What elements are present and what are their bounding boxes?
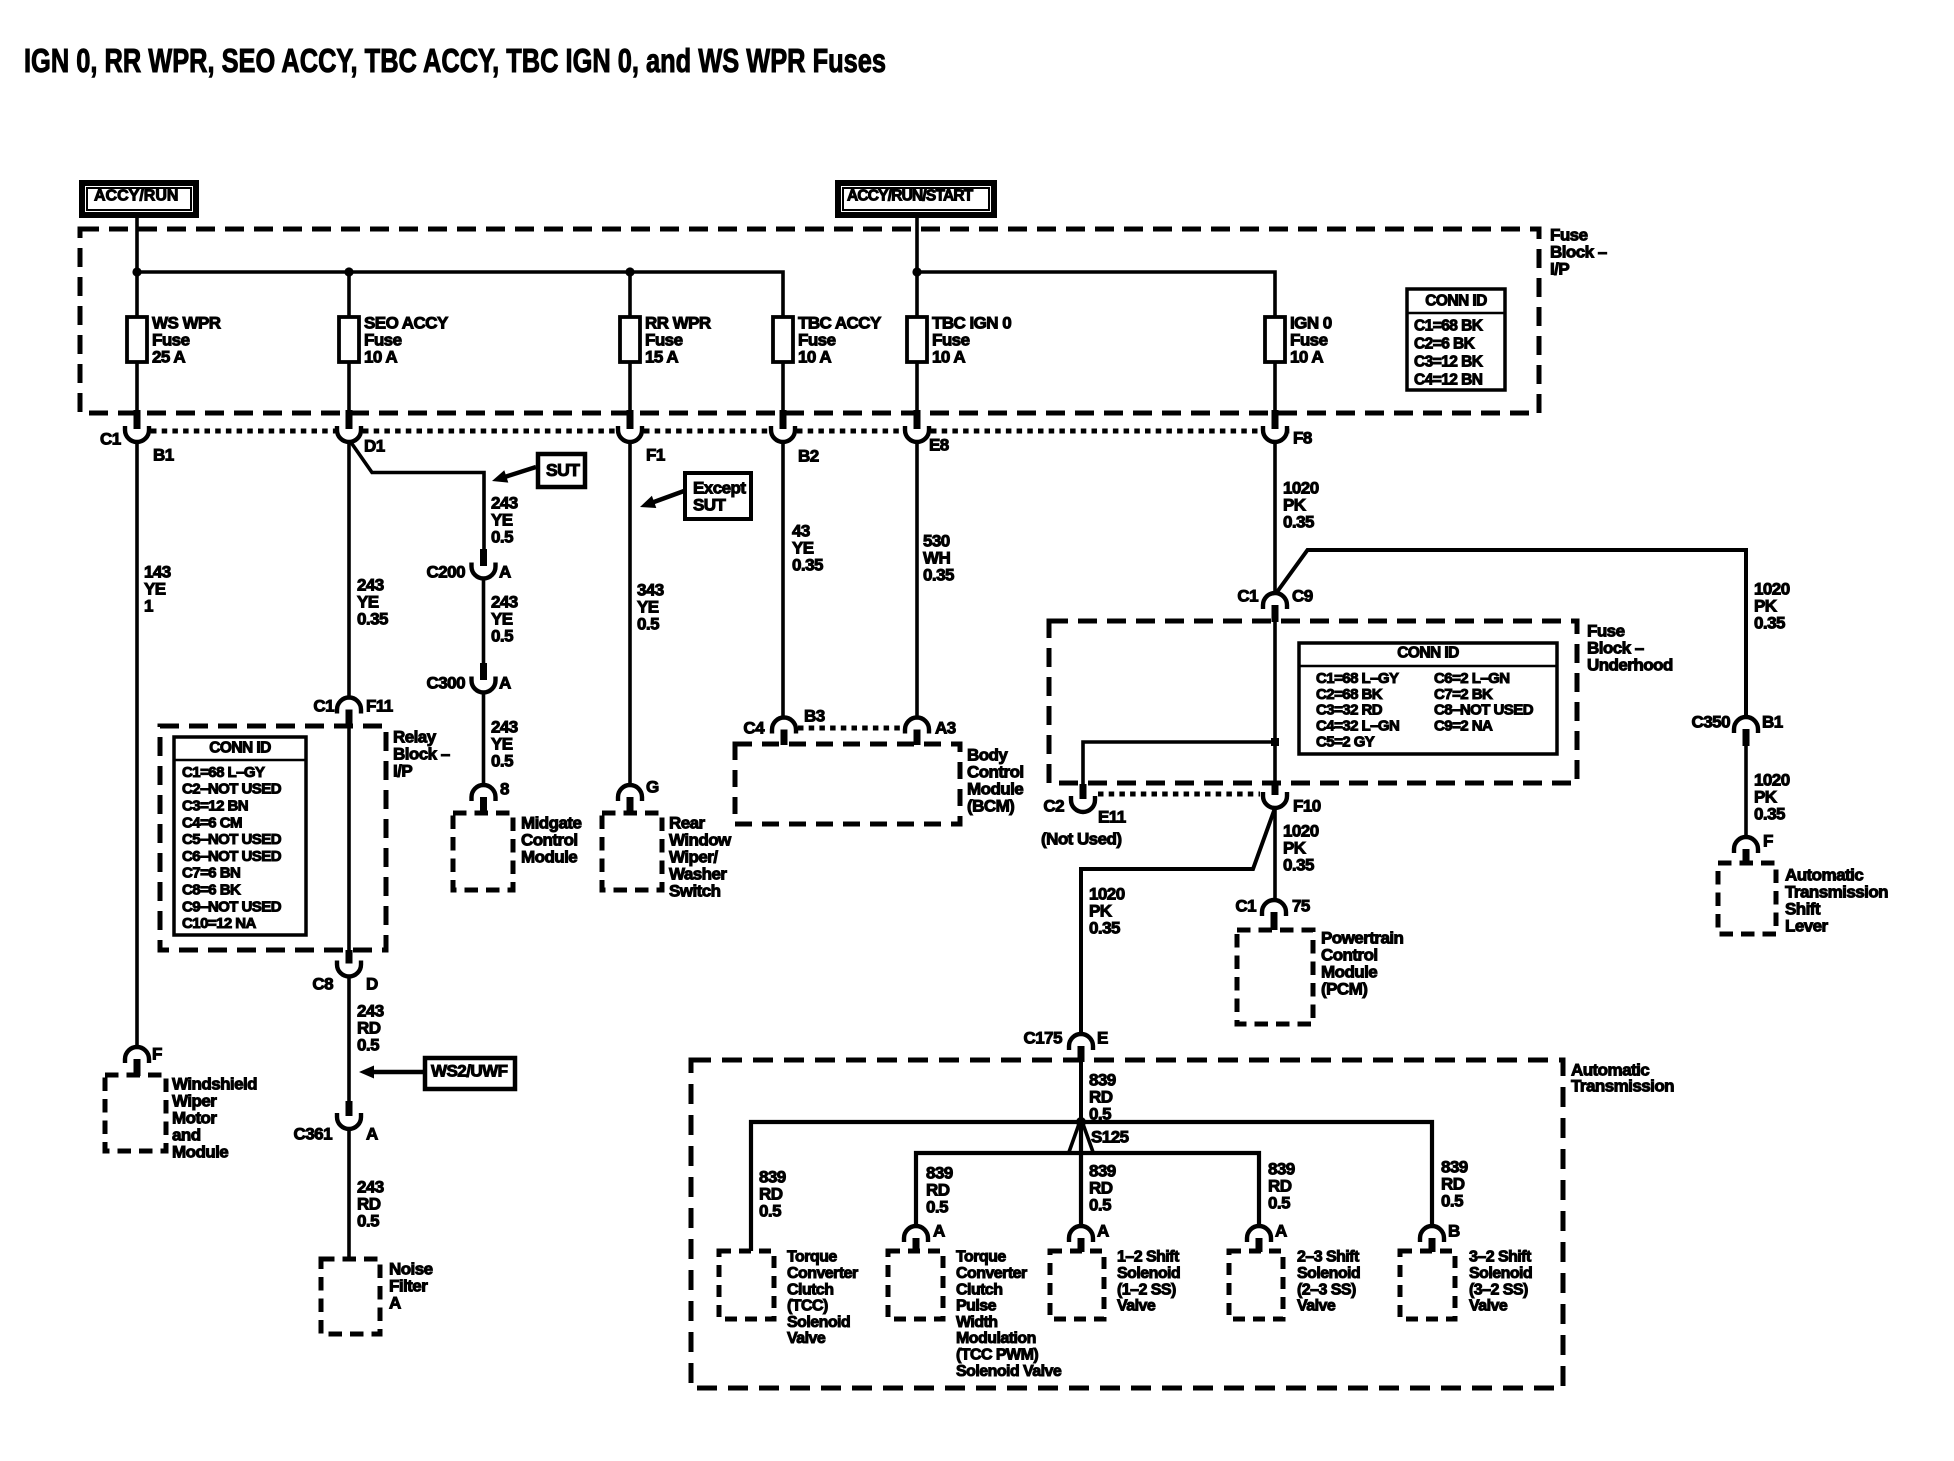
noise filter A label: [389, 1259, 433, 1312]
svg-text:25 A: 25 A: [152, 347, 185, 366]
svg-text:C200: C200: [427, 562, 466, 581]
svg-text:C7=6 BN: C7=6 BN: [182, 865, 240, 882]
svg-text:Underhood: Underhood: [1587, 655, 1673, 674]
svg-text:Valve: Valve: [787, 1330, 826, 1347]
junction ACCY/RUN bus at SEO ACCY: [344, 267, 353, 276]
svg-text:(BCM): (BCM): [967, 796, 1014, 815]
fuse block I/P label: [1550, 225, 1607, 278]
svg-text:D1: D1: [364, 436, 385, 455]
svg-text:F10: F10: [1293, 796, 1321, 815]
svg-text:Width: Width: [956, 1314, 998, 1331]
connector G rear window wiper switch: [618, 777, 659, 814]
wire label 143 YE 1: [144, 562, 171, 615]
svg-text:C9=2 NA: C9=2 NA: [1434, 718, 1493, 735]
svg-text:IGN 0, RR WPR, SEO ACCY, TBC A: IGN 0, RR WPR, SEO ACCY, TBC ACCY, TBC I…: [24, 42, 886, 79]
svg-text:F1: F1: [646, 445, 665, 464]
svg-text:C1: C1: [100, 429, 121, 448]
svg-text:10 A: 10 A: [1290, 347, 1323, 366]
wire 530 WH 0.35: [915, 442, 919, 718]
junction ACCY/RUN bus at WS WPR: [132, 267, 141, 276]
wire 243 RD 0.5 C8-C361: [347, 977, 351, 1102]
svg-text:(3–2 SS): (3–2 SS): [1469, 1281, 1528, 1298]
connector F8 at fuse block I/P: [1263, 410, 1312, 447]
svg-text:A: A: [933, 1221, 945, 1240]
svg-text:F: F: [152, 1044, 162, 1063]
wire label 243 YE 0.5 (SUT branch): [491, 493, 518, 546]
svg-text:0.5: 0.5: [1441, 1191, 1463, 1210]
wire ACCY/RUN bus: [137, 272, 783, 317]
fuse SEO ACCY 10 A: [339, 313, 449, 366]
connector D1 at fuse block I/P: [337, 410, 385, 455]
powertrain control module label: [1321, 928, 1404, 998]
svg-text:Solenoid: Solenoid: [787, 1314, 850, 1331]
wire 839 RD 0.5 C175-S125: [1079, 1058, 1083, 1122]
svg-text:C10=12 NA: C10=12 NA: [182, 915, 257, 932]
wire inside underhood block: [1273, 621, 1277, 783]
svg-text:10 A: 10 A: [798, 347, 831, 366]
CONN ID table fuse block I/P: [1407, 289, 1505, 390]
svg-text:Lever: Lever: [1785, 916, 1829, 935]
svg-text:C8: C8: [312, 974, 333, 993]
svg-text:A: A: [1275, 1221, 1287, 1240]
wire through relay block: [347, 727, 351, 950]
svg-text:Switch: Switch: [669, 881, 721, 900]
SUT callout: [492, 454, 585, 487]
svg-text:E: E: [1097, 1028, 1108, 1047]
splice S125 junction: [1076, 1117, 1129, 1146]
svg-text:0.35: 0.35: [792, 555, 823, 574]
svg-text:C1=68 BK: C1=68 BK: [1414, 317, 1484, 334]
svg-text:(TCC): (TCC): [787, 1298, 828, 1315]
wire 243 RD 0.5 C361-noise filter: [347, 1129, 351, 1259]
svg-text:C350: C350: [1692, 712, 1731, 731]
svg-text:(1–2 SS): (1–2 SS): [1117, 1281, 1176, 1298]
svg-text:0.5: 0.5: [926, 1197, 948, 1216]
svg-text:C8–NOT USED: C8–NOT USED: [1434, 702, 1534, 719]
connector C2 E11 (Not Used): [1043, 784, 1125, 826]
wire label 1020 PK 0.35: [1283, 821, 1319, 874]
svg-text:Solenoid: Solenoid: [1117, 1265, 1180, 1282]
wire label 839 RD 0.5 (drop 5): [1441, 1157, 1468, 1210]
noise filter A box: [321, 1259, 380, 1334]
connector C4 B3 body control module: [743, 706, 824, 745]
svg-text:0.5: 0.5: [637, 614, 659, 633]
svg-text:C175: C175: [1024, 1028, 1063, 1047]
svg-text:Solenoid: Solenoid: [1297, 1265, 1360, 1282]
svg-text:F8: F8: [1293, 428, 1312, 447]
svg-text:C361: C361: [294, 1124, 333, 1143]
connector B2 at fuse block I/P: [771, 410, 819, 465]
windshield wiper motor and module label: [172, 1074, 257, 1161]
TCC PWM solenoid valve box: [888, 1251, 943, 1319]
automatic transmission label: [1571, 1060, 1674, 1095]
connector A3 body control module: [905, 718, 956, 746]
connector A TCC PWM solenoid: [904, 1221, 945, 1252]
power feed label ACCY/RUN/START: [838, 183, 994, 215]
wire label 43 YE 0.35: [792, 521, 823, 574]
svg-text:A3: A3: [935, 718, 956, 737]
svg-text:C6=2 L–GN: C6=2 L–GN: [1434, 670, 1510, 687]
svg-text:C9: C9: [1292, 586, 1313, 605]
svg-text:(TCC PWM): (TCC PWM): [956, 1347, 1038, 1364]
svg-text:Clutch: Clutch: [787, 1281, 833, 1298]
svg-text:C9–NOT USED: C9–NOT USED: [182, 898, 282, 915]
svg-text:15 A: 15 A: [645, 347, 678, 366]
svg-text:0.5: 0.5: [357, 1035, 379, 1054]
svg-text:1: 1: [144, 596, 153, 615]
svg-text:0.35: 0.35: [1754, 613, 1785, 632]
svg-text:(PCM): (PCM): [1321, 979, 1367, 998]
fuse RR WPR 15 A: [620, 313, 711, 366]
svg-text:C2–NOT USED: C2–NOT USED: [182, 781, 282, 798]
svg-text:A: A: [1097, 1221, 1109, 1240]
wire label 243 YE 0.5: [491, 717, 518, 770]
connector F10: [1263, 783, 1321, 815]
svg-text:Valve: Valve: [1297, 1298, 1336, 1315]
connector C361 A: [294, 1101, 378, 1143]
svg-text:0.5: 0.5: [759, 1201, 781, 1220]
splice S125 bus: [751, 1122, 1432, 1251]
svg-text:0.35: 0.35: [1283, 855, 1314, 874]
wire ACCY/RUN feed: [135, 218, 139, 317]
svg-text:C1=68 L–GY: C1=68 L–GY: [1316, 670, 1399, 687]
svg-text:Valve: Valve: [1469, 1298, 1508, 1315]
svg-text:A: A: [366, 1124, 378, 1143]
wire label 530 WH 0.35: [923, 531, 954, 584]
wire F10 branch to C175: [1081, 808, 1275, 1035]
svg-text:(2–3 SS): (2–3 SS): [1297, 1281, 1356, 1298]
svg-text:E11: E11: [1098, 807, 1126, 826]
svg-text:C4=12 BN: C4=12 BN: [1414, 371, 1483, 388]
wire 43 YE 0.35: [781, 442, 785, 718]
svg-text:C3=12 BN: C3=12 BN: [182, 798, 248, 815]
wire 243 YE 0.5 C200-C300: [482, 579, 486, 664]
CONN ID table relay block: [174, 737, 306, 935]
wire below TBC IGN 0 fuse: [915, 362, 919, 413]
connector E8 at fuse block I/P: [905, 410, 949, 454]
wire 1020 PK 0.35 C350-F: [1744, 746, 1748, 838]
svg-text:C4: C4: [743, 718, 765, 737]
svg-text:CONN ID: CONN ID: [1397, 644, 1459, 661]
connector C300 A: [427, 663, 511, 693]
wire label 243 RD 0.5: [357, 1001, 384, 1054]
fuse WS WPR 25 A: [127, 313, 221, 366]
BCM connector dotted line C4-A3: [798, 726, 903, 731]
wire branch D1 to SUT drop: [350, 441, 484, 551]
svg-text:Converter: Converter: [956, 1265, 1027, 1282]
1-2 shift solenoid valve box: [1050, 1251, 1104, 1319]
connector F1 at fuse block I/P: [618, 410, 665, 464]
connector C1 F11 relay block: [313, 696, 392, 727]
svg-text:A: A: [499, 673, 511, 692]
wire label 1020 PK 0.35 (right): [1754, 579, 1790, 632]
svg-text:Solenoid: Solenoid: [1469, 1265, 1532, 1282]
svg-text:E8: E8: [929, 435, 949, 454]
svg-text:C6–NOT USED: C6–NOT USED: [182, 848, 282, 865]
3-2 shift solenoid valve label: [1469, 1249, 1532, 1315]
svg-text:D: D: [366, 974, 378, 993]
junction ACCY/RUN/START bus at TBC IGN 0: [912, 267, 921, 276]
svg-text:10 A: 10 A: [364, 347, 397, 366]
svg-text:Pulse: Pulse: [956, 1298, 997, 1315]
svg-text:0.5: 0.5: [1089, 1195, 1111, 1214]
wire label 839 RD 0.5 (drop 2): [926, 1163, 953, 1216]
CONN ID table fuse block underhood: [1299, 643, 1557, 754]
svg-text:0.5: 0.5: [491, 751, 513, 770]
svg-text:WS2/UWF: WS2/UWF: [431, 1061, 508, 1080]
TCC solenoid valve box: [719, 1251, 774, 1319]
Except SUT callout: [640, 473, 751, 519]
svg-text:B1: B1: [153, 445, 174, 464]
label (Not Used): [1041, 829, 1121, 848]
svg-text:I/P: I/P: [1550, 259, 1569, 278]
wire label 839 RD 0.5 (drop 4): [1268, 1159, 1295, 1212]
connector row dotted line: [151, 429, 1289, 434]
svg-text:C3=32 RD: C3=32 RD: [1316, 702, 1383, 719]
connector C1 C9 fuse block underhood: [1237, 586, 1312, 622]
svg-text:0.5: 0.5: [357, 1211, 379, 1230]
svg-text:B1: B1: [1762, 712, 1783, 731]
power feed label ACCY/RUN: [82, 183, 196, 215]
svg-text:Module: Module: [172, 1142, 228, 1161]
svg-text:G: G: [646, 777, 659, 796]
svg-text:Module: Module: [521, 847, 577, 866]
wire 1020 PK 0.35 F10-PCM: [1273, 808, 1277, 901]
svg-text:C1: C1: [313, 696, 334, 715]
wire below RR WPR fuse: [628, 362, 632, 413]
2-3 shift solenoid valve box: [1229, 1251, 1283, 1319]
svg-text:0.5: 0.5: [491, 527, 513, 546]
connector C1 / B1 at fuse block I/P: [100, 410, 174, 464]
svg-text:ACCY/RUN: ACCY/RUN: [94, 188, 178, 205]
midgate control module label: [521, 813, 581, 866]
svg-text:SUT: SUT: [546, 460, 580, 480]
automatic transmission boundary: [691, 1060, 1563, 1388]
svg-text:F11: F11: [366, 696, 393, 715]
junction at F10 wire: [1271, 738, 1279, 746]
fuse TBC IGN 0 10 A: [907, 313, 1011, 366]
svg-text:3–2 Shift: 3–2 Shift: [1469, 1249, 1532, 1266]
wire 143 YE 1: [135, 442, 139, 1048]
svg-text:C1: C1: [1237, 586, 1258, 605]
svg-text:Solenoid Valve: Solenoid Valve: [956, 1363, 1062, 1380]
svg-text:ACCY/RUN/START: ACCY/RUN/START: [847, 187, 974, 204]
svg-text:0.35: 0.35: [357, 609, 388, 628]
rear window wiper/washer switch box: [602, 813, 662, 890]
svg-text:0.35: 0.35: [1754, 804, 1785, 823]
wire label 1020 PK 0.35: [1283, 478, 1319, 531]
2-3 shift solenoid valve label: [1297, 1249, 1360, 1315]
wire below IGN 0 fuse: [1273, 362, 1277, 413]
svg-text:0.35: 0.35: [1089, 918, 1120, 937]
svg-text:0.35: 0.35: [1283, 512, 1314, 531]
wire below TBC ACCY fuse: [781, 362, 785, 413]
wire 243 YE 0.5 C300-midgate: [482, 693, 486, 787]
automatic transmission shift lever label: [1785, 865, 1888, 935]
svg-text:CONN ID: CONN ID: [209, 739, 271, 756]
body control module box: [735, 744, 960, 824]
TCC solenoid valve label: [787, 1249, 858, 1348]
svg-text:S125: S125: [1091, 1127, 1129, 1146]
svg-text:A: A: [389, 1293, 401, 1312]
svg-text:A: A: [499, 562, 511, 581]
wire label 839 RD 0.5 (drop 3): [1089, 1161, 1116, 1214]
svg-text:C5–NOT USED: C5–NOT USED: [182, 831, 282, 848]
svg-text:SUT: SUT: [693, 495, 727, 514]
rear window wiper/washer switch label: [669, 813, 732, 900]
svg-text:C8=6 BK: C8=6 BK: [182, 882, 241, 899]
svg-text:0.5: 0.5: [491, 626, 513, 645]
svg-text:Torque: Torque: [956, 1249, 1006, 1266]
splice S125 secondary bus: [916, 1153, 1259, 1226]
wire to C350 branch (top right): [1277, 550, 1746, 717]
svg-text:(Not Used): (Not Used): [1041, 829, 1121, 848]
relay block I/P label: [393, 727, 450, 780]
svg-text:C1=68 L–GY: C1=68 L–GY: [182, 764, 265, 781]
connector C175 E: [1024, 1028, 1108, 1062]
svg-text:8: 8: [500, 779, 509, 798]
svg-text:2–3 Shift: 2–3 Shift: [1297, 1249, 1360, 1266]
svg-text:C2: C2: [1043, 796, 1064, 815]
connector 8 midgate control module: [472, 779, 510, 814]
svg-text:0.35: 0.35: [923, 565, 954, 584]
wire 243 YE 0.35: [347, 442, 351, 699]
svg-text:Torque: Torque: [787, 1249, 837, 1266]
svg-text:Transmission: Transmission: [1571, 1076, 1674, 1095]
splice S125 diagonals: [1069, 1124, 1093, 1152]
windshield wiper motor and module box: [105, 1075, 166, 1151]
wire label 839 RD 0.5: [1089, 1070, 1116, 1123]
midgate control module box: [453, 813, 513, 890]
3-2 shift solenoid valve box: [1400, 1251, 1455, 1319]
svg-text:1–2 Shift: 1–2 Shift: [1117, 1249, 1180, 1266]
svg-text:C1: C1: [1235, 896, 1256, 915]
connector C350 B1: [1692, 712, 1783, 746]
wire RR WPR drop: [628, 272, 632, 317]
svg-text:B2: B2: [798, 446, 819, 465]
wire label 1020 PK 0.35: [1754, 770, 1790, 823]
fuse block underhood boundary: [1049, 621, 1577, 783]
WS2/UWF callout: [359, 1058, 515, 1089]
relay block I/P boundary: [160, 726, 386, 950]
svg-text:CONN ID: CONN ID: [1425, 292, 1487, 309]
fuse block underhood label: [1587, 621, 1673, 674]
svg-text:75: 75: [1292, 896, 1310, 915]
wire label 343 YE 0.5: [637, 580, 664, 633]
svg-text:C2=68 BK: C2=68 BK: [1316, 686, 1383, 703]
wire label 243 YE 0.35: [357, 575, 388, 628]
wire below SEO ACCY fuse: [347, 362, 351, 413]
wire 343 YE 0.5: [628, 442, 632, 786]
wire label 1020 PK 0.35: [1089, 884, 1125, 937]
connector C8 D relay block: [312, 950, 378, 993]
powertrain control module box: [1237, 930, 1313, 1024]
wire 1020 PK 0.35 F8 down: [1273, 442, 1277, 594]
junction ACCY/RUN bus at RR WPR: [625, 267, 634, 276]
fuse block I/P boundary: [80, 229, 1539, 413]
1-2 shift solenoid valve label: [1117, 1249, 1180, 1315]
wire label 243 YE 0.5: [491, 592, 518, 645]
wire branch to E11: [1083, 742, 1275, 799]
svg-text:C4=32 L–GN: C4=32 L–GN: [1316, 718, 1399, 735]
svg-text:I/P: I/P: [393, 761, 412, 780]
svg-text:C5=2 GY: C5=2 GY: [1316, 734, 1375, 751]
svg-text:Valve: Valve: [1117, 1298, 1156, 1315]
wire label 839 RD 0.5 (drop 1): [759, 1167, 786, 1220]
wire SEO ACCY drop: [347, 272, 351, 317]
body control module label: [967, 745, 1024, 815]
svg-text:Modulation: Modulation: [956, 1330, 1036, 1347]
svg-text:B3: B3: [804, 706, 825, 725]
svg-text:C300: C300: [427, 673, 466, 692]
fuse TBC ACCY 10 A: [773, 313, 882, 366]
connector F windshield wiper motor: [125, 1044, 162, 1076]
connector F shift lever: [1734, 831, 1773, 864]
automatic transmission shift lever box: [1718, 863, 1776, 934]
wire below WS WPR fuse: [135, 362, 139, 413]
svg-text:B: B: [1448, 1221, 1460, 1240]
svg-text:Converter: Converter: [787, 1265, 858, 1282]
connector C200 A: [427, 549, 511, 581]
wire label 243 RD 0.5: [357, 1177, 384, 1230]
svg-text:C4=6 CM: C4=6 CM: [182, 814, 242, 831]
svg-text:C7=2 BK: C7=2 BK: [1434, 686, 1493, 703]
TCC PWM solenoid valve label: [956, 1249, 1062, 1380]
wire S125 to 1-2 shift solenoid: [1079, 1122, 1083, 1226]
connector A 1-2 shift solenoid: [1069, 1221, 1109, 1252]
title: [24, 42, 886, 79]
svg-text:10 A: 10 A: [932, 347, 965, 366]
svg-text:C2=6 BK: C2=6 BK: [1414, 335, 1476, 352]
wire ACCY/RUN/START feed: [915, 218, 919, 317]
svg-text:F: F: [1763, 831, 1773, 850]
svg-text:0.5: 0.5: [1268, 1193, 1290, 1212]
svg-text:Clutch: Clutch: [956, 1281, 1002, 1298]
connector row dotted line C2-F10: [1098, 792, 1260, 797]
svg-text:C3=12 BK: C3=12 BK: [1414, 353, 1484, 370]
fuse IGN 0 10 A: [1265, 313, 1332, 366]
connector C1 75 PCM: [1235, 896, 1310, 930]
wire ACCY/RUN/START bus: [917, 272, 1275, 317]
connector B 3-2 shift solenoid: [1420, 1221, 1460, 1252]
connector A 2-3 shift solenoid: [1247, 1221, 1287, 1252]
